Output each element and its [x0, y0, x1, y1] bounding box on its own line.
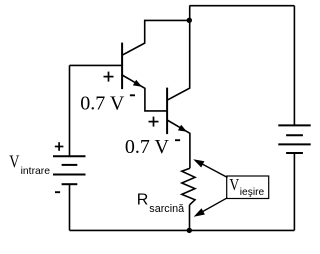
- battery V1 left plates: [53, 156, 86, 184]
- node bottom junction dot: [187, 228, 192, 233]
- wire resistor bottom: [189, 205, 191, 231]
- wire right side down to battery: [293, 6, 295, 126]
- wire arrow upper (Viesire to resistor top): [196, 161, 228, 178]
- node top junction dot: [187, 18, 192, 23]
- Viesire label box: [227, 176, 269, 199]
- wire Q1 emitter to Q2 base: [122, 75, 166, 111]
- svg-text:V: V: [9, 153, 19, 172]
- svg-text:intrare: intrare: [21, 166, 51, 177]
- wire left battery bottom to rail: [69, 184, 71, 230]
- wire right battery bottom to rail: [293, 153, 295, 230]
- battery V2 right plates: [278, 125, 310, 153]
- label Vintrare: [9, 153, 50, 177]
- plus sign battery V1: [55, 142, 64, 151]
- transistor Q2 base bar: [166, 88, 168, 135]
- wire left battery top: [69, 65, 71, 156]
- wire base Q1: [70, 64, 122, 66]
- svg-text:0.7 V: 0.7 V: [80, 93, 125, 115]
- label Rsarcina: [137, 191, 184, 215]
- transistor Q1 base bar: [121, 43, 123, 90]
- svg-text:V: V: [229, 176, 239, 195]
- wire bottom rail: [70, 229, 295, 231]
- svg-text:sarcină: sarcină: [149, 203, 184, 215]
- wire Q2 emitter down: [167, 120, 190, 168]
- minus sign battery V1: [55, 191, 60, 193]
- resistor Rsarcina zigzag: [182, 168, 195, 205]
- transistor Q2 emitter arrow: [178, 125, 187, 132]
- svg-text:ieşire: ieşire: [240, 187, 265, 198]
- minus sign Q2 VBE: [175, 139, 180, 141]
- svg-text:0.7 V: 0.7 V: [125, 136, 170, 158]
- svg-text:R: R: [137, 191, 149, 208]
- minus sign Q1 VBE: [130, 94, 135, 96]
- transistor Q1 emitter arrow: [133, 80, 142, 87]
- wire Q1 collector to top: [122, 20, 189, 55]
- wire Q2 collector to top node: [167, 6, 190, 101]
- plus sign Q1 VBE: [104, 72, 114, 82]
- wire top rail: [189, 5, 294, 7]
- wire arrow lower (Viesire to resistor bottom): [197, 198, 228, 215]
- label Viesire: [229, 176, 264, 199]
- plus sign Q2 VBE: [149, 117, 159, 127]
